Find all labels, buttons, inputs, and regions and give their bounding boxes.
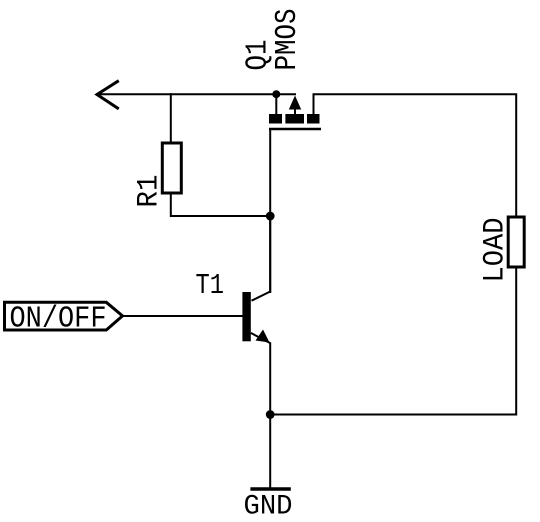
wire xyxy=(170,94,172,143)
wire xyxy=(97,93,295,95)
supply arrow xyxy=(97,82,118,109)
junction dot (gate / R1 / collector) xyxy=(266,212,275,221)
ground xyxy=(244,489,293,522)
load LOAD xyxy=(508,217,524,267)
transistor T1 xyxy=(242,216,270,415)
svg-text:PMOS: PMOS xyxy=(270,9,305,71)
transistor Q1 PMOS xyxy=(269,90,321,129)
wire xyxy=(171,193,270,216)
svg-text:GND: GND xyxy=(244,492,293,522)
ground bar xyxy=(250,487,290,490)
svg-text:ON/OFF: ON/OFF xyxy=(10,301,107,336)
base bar xyxy=(242,292,250,341)
channel segment left xyxy=(269,114,282,124)
emitter arrow xyxy=(256,330,270,343)
wire xyxy=(269,415,271,489)
emitter lead xyxy=(251,333,270,415)
svg-text:T1: T1 xyxy=(196,269,225,302)
channel segment middle xyxy=(285,114,304,124)
drain stub xyxy=(313,94,315,115)
wire xyxy=(314,94,517,217)
wire xyxy=(269,130,271,292)
resistor R1 xyxy=(162,143,181,193)
junction dot xyxy=(272,90,280,98)
wire xyxy=(270,267,516,415)
source stub xyxy=(275,94,277,115)
gate bar xyxy=(269,128,321,131)
svg-text:R1: R1 xyxy=(133,175,167,208)
wire xyxy=(123,315,242,317)
input flag ON/OFF xyxy=(5,302,123,330)
junction dot (emitter / load / gnd) xyxy=(266,410,275,419)
svg-text:LOAD: LOAD xyxy=(479,218,513,283)
substrate arrow xyxy=(289,96,301,110)
channel segment right xyxy=(307,114,320,124)
collector lead xyxy=(252,216,271,301)
